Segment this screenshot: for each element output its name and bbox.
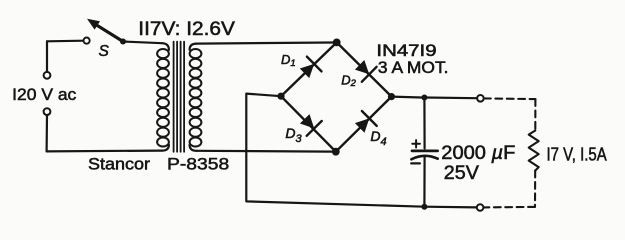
node right of bridge — [388, 93, 395, 100]
junction dot capacitor bottom — [421, 204, 427, 210]
capacitor C1 bottom lead — [423, 157, 425, 207]
dashed wire top to load — [484, 97, 535, 100]
bridge arm bottom-right — [336, 97, 392, 152]
diode D3 — [300, 114, 322, 136]
transformer core — [174, 42, 185, 152]
wire top-left rail — [47, 40, 83, 43]
transformer secondary bottom stem — [190, 145, 197, 151]
diode D4 — [355, 111, 377, 133]
capacitor minus sign — [411, 162, 420, 164]
transformer primary bottom stem — [162, 145, 169, 151]
bridge arm top-right — [337, 42, 392, 96]
dashed wire bottom to load — [484, 206, 535, 209]
node bottom of bridge — [332, 148, 340, 156]
diode D1 — [300, 57, 322, 79]
capacitor C1 curved plate — [411, 156, 437, 160]
svg-text:3 A MOT.: 3 A MOT. — [378, 59, 449, 77]
dashed wire load lower — [534, 171, 536, 207]
terminal output bottom — [477, 204, 484, 211]
wire left node to negative rail — [246, 94, 424, 207]
junction dot switch to wire — [120, 39, 126, 45]
svg-text:IN47I9: IN47I9 — [376, 42, 436, 60]
wire right node to capacitor — [392, 95, 422, 98]
node top of bridge — [333, 39, 341, 47]
diode D2 — [355, 60, 377, 82]
wire secondary top to bridge — [196, 43, 332, 44]
svg-text:II7V: I2.6V: II7V: I2.6V — [138, 19, 235, 40]
wire negative rail to terminal — [424, 206, 476, 209]
transformer secondary top stem — [190, 44, 197, 50]
wire switch to transformer — [123, 42, 162, 44]
switch S blade — [96, 25, 123, 42]
svg-text:S: S — [99, 43, 110, 60]
wire capacitor to terminal — [424, 96, 477, 99]
terminal input bottom — [44, 108, 51, 115]
wire secondary bottom to bridge — [196, 150, 332, 153]
junction dot capacitor top — [421, 95, 427, 101]
svg-text:25V: 25V — [444, 163, 479, 184]
terminal output top — [477, 95, 484, 102]
dashed wire load upper — [534, 99, 536, 131]
capacitor plus sign — [412, 140, 420, 147]
svg-text:I20 V ac: I20 V ac — [12, 85, 77, 104]
transformer primary top stem — [162, 43, 169, 50]
wire left rail lower — [45, 115, 48, 151]
switch S arrowhead — [87, 19, 100, 30]
switch S pivot circle — [84, 38, 90, 44]
bridge arm left-bottom — [281, 96, 336, 152]
node left of bridge — [277, 93, 284, 100]
transformer primary winding — [157, 49, 169, 147]
capacitor C1 top lead — [423, 98, 425, 149]
capacitor C1 top plate — [412, 150, 438, 153]
svg-text:I7 V, I.5A: I7 V, I.5A — [547, 145, 607, 165]
transformer secondary winding — [190, 49, 202, 147]
wire left rail upper — [46, 41, 48, 72]
svg-text:2000 µF: 2000 µF — [441, 143, 515, 164]
svg-text:P-8358: P-8358 — [167, 154, 229, 173]
bridge arm top-left — [281, 42, 337, 96]
svg-text:Stancor: Stancor — [88, 154, 150, 173]
wire bottom-left rail — [47, 150, 162, 153]
terminal input top — [44, 72, 51, 79]
resistor load zigzag — [529, 131, 539, 171]
